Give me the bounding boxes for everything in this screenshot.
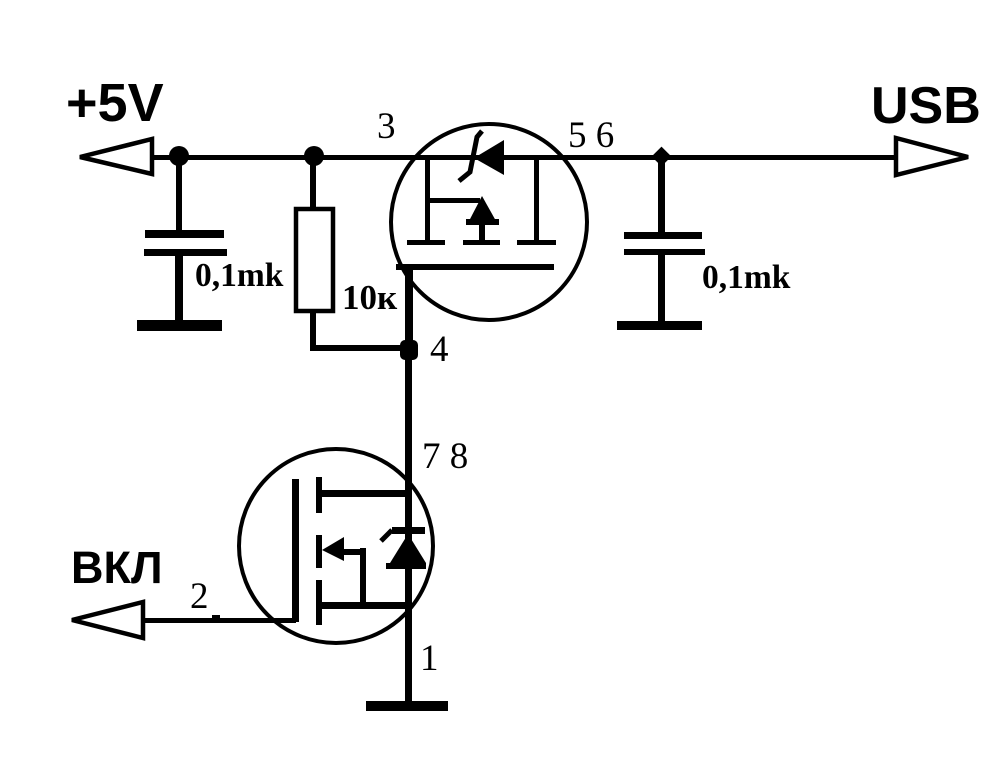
wire gate Q1 down to node 4	[405, 266, 413, 352]
svg-text:USB: USB	[871, 77, 981, 135]
transistor Q1 channel segment 3	[517, 240, 556, 245]
transistor Q2 source stub	[322, 602, 409, 609]
svg-text:5 6: 5 6	[568, 115, 614, 156]
transistor Q1 source vertical	[425, 159, 430, 245]
transistor Q2 body zener diode	[381, 527, 426, 569]
svg-text:0,1mk: 0,1mk	[702, 259, 791, 296]
transistor Q1 substrate arrow	[466, 196, 499, 245]
node junction C	[652, 147, 672, 167]
svg-text:1: 1	[420, 638, 439, 679]
wire top rail	[150, 155, 897, 160]
wire cap C2 bottom lead	[658, 255, 665, 321]
port arrow USB	[896, 138, 968, 175]
svg-text:ВКЛ: ВКЛ	[71, 542, 163, 593]
wire resistor elbow to node 4	[310, 345, 410, 351]
port arrow +5V	[80, 139, 152, 174]
svg-text:2: 2	[190, 576, 209, 617]
transistor Q1 drain vertical	[534, 159, 539, 245]
wire resistor top lead	[310, 156, 316, 208]
transistor Q1 channel segment 1	[407, 240, 445, 245]
transistor Q2 channel segment 2	[316, 535, 322, 568]
transistor Q1 body branch	[428, 198, 480, 203]
node junction A	[169, 146, 189, 166]
wire ВКЛ to gate Q2	[143, 618, 296, 623]
transistor Q1 body diode	[459, 131, 504, 181]
ground under C1	[137, 320, 222, 331]
wire cap C2 top lead	[658, 156, 665, 233]
transistor Q2 gate bar	[292, 479, 299, 622]
transistor Q2 channel segment 1	[316, 477, 322, 513]
svg-text:4: 4	[430, 329, 449, 370]
transistor Q2 body circle	[239, 449, 433, 643]
transistor Q1 gate line	[396, 264, 554, 270]
port arrow ВКЛ	[72, 602, 143, 638]
wire cap C1 top lead	[176, 156, 182, 231]
wire cap C1 bottom lead	[175, 256, 183, 321]
node junction B	[304, 146, 324, 166]
resistor R1	[296, 209, 333, 311]
capacitor C1	[144, 230, 227, 256]
svg-text:0,1mk: 0,1mk	[195, 257, 284, 294]
node 4 junction	[400, 340, 418, 360]
ground under Q2	[366, 701, 448, 711]
wire resistor bottom lead	[310, 311, 316, 347]
transistor Q2 drain stub	[322, 490, 409, 497]
svg-text:7 8: 7 8	[422, 436, 468, 477]
capacitor C2	[624, 232, 705, 255]
transistor Q1 body circle	[391, 124, 587, 320]
svg-text:+5V: +5V	[66, 73, 164, 133]
ground under C2	[617, 321, 702, 330]
wire node 4 down to Q2	[405, 355, 412, 702]
transistor Q2 substrate arrow	[322, 537, 366, 606]
transistor Q2 channel segment 3	[316, 580, 322, 625]
transistor Q1 channel segment 2	[463, 240, 500, 245]
svg-text:3: 3	[377, 106, 396, 147]
svg-text:10к: 10к	[342, 278, 398, 317]
junction speck on ВКЛ wire	[212, 615, 220, 619]
